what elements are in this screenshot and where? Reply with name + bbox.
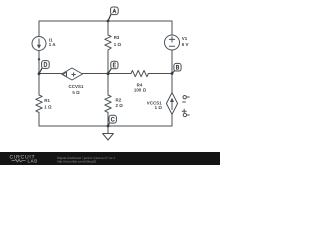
dependent source CCVS1: [62, 68, 83, 80]
svg-text:1 A: 1 A: [49, 42, 57, 47]
svg-text:1 Ω: 1 Ω: [114, 42, 122, 47]
resistor R3: [105, 35, 111, 50]
VCCS1 control pin plus: [182, 110, 186, 112]
svg-text:R1: R1: [44, 98, 50, 103]
svg-text:R2: R2: [116, 97, 122, 102]
resistor R2: [105, 95, 111, 112]
wire right branch top: [171, 21, 173, 35]
node B: [171, 63, 181, 75]
wire left branch top: [38, 21, 40, 37]
svg-text:5 Ω: 5 Ω: [72, 90, 80, 95]
svg-text:http://circuitlab.com/c9kaq35: http://circuitlab.com/c9kaq35: [57, 160, 96, 164]
wire B to VCCS1: [171, 74, 173, 93]
svg-text:1 Ω: 1 Ω: [44, 105, 52, 110]
ground: [107, 126, 109, 134]
current source I1: [32, 37, 46, 51]
node A: [107, 7, 119, 22]
svg-text:1 Ω: 1 Ω: [155, 105, 163, 110]
wire top rail: [39, 20, 172, 22]
svg-text:V1: V1: [182, 36, 188, 41]
VCCS1 control pin minus: [183, 96, 186, 99]
svg-text:R3: R3: [114, 35, 120, 40]
wire I1 to node D: [38, 51, 40, 74]
junction dot I1 lead: [38, 58, 40, 60]
wire V1 to node B: [171, 50, 173, 74]
voltage source V1: [165, 35, 180, 50]
wire mid branch top: [107, 21, 109, 35]
svg-text:CCVS1: CCVS1: [69, 84, 84, 89]
wire R4 to node B: [148, 73, 172, 75]
wire left branch mid: [38, 74, 40, 96]
node C: [107, 115, 117, 127]
wire R2 to node C: [107, 112, 109, 126]
resistor R4: [131, 70, 148, 76]
wire bottom rail: [39, 125, 172, 127]
wire middle rail D to CCVS1: [39, 73, 62, 75]
svg-text:2 Ω: 2 Ω: [116, 103, 124, 108]
node D: [38, 61, 50, 76]
node E: [107, 61, 118, 75]
watermark bar: [0, 152, 220, 165]
wire R3 to node E: [107, 50, 109, 74]
resistor R1: [36, 95, 42, 112]
wire CCVS1 to node E: [83, 73, 132, 75]
wire mid branch: [107, 74, 109, 96]
svg-text:100 Ω: 100 Ω: [134, 88, 147, 93]
wire R1 to bottom rail: [38, 112, 40, 126]
dependent source VCCS1: [166, 93, 177, 115]
wire VCCS1 to bottom rail: [171, 114, 173, 126]
svg-text:6 V: 6 V: [182, 42, 189, 47]
svg-text:LAB: LAB: [28, 159, 38, 164]
